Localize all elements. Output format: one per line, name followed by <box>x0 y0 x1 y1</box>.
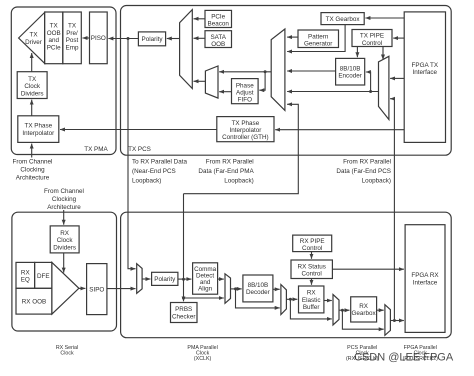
svg-text:Control: Control <box>362 40 382 47</box>
block PRBS Checker <box>171 303 198 323</box>
svg-text:To RX Parallel Data: To RX Parallel Data <box>132 158 187 165</box>
wire far-end PMA loopback (up from RX) <box>184 104 299 193</box>
block TX Gearbox <box>321 13 364 25</box>
block TX Phase Interpolator <box>18 116 59 143</box>
junction comma bypass branch <box>182 297 185 300</box>
svg-text:RX: RX <box>307 290 317 297</box>
svg-text:Control: Control <box>302 270 322 277</box>
svg-text:From Channel: From Channel <box>44 188 84 195</box>
svg-text:CSDN @LEE FPGA: CSDN @LEE FPGA <box>354 352 454 364</box>
svg-text:Clocking: Clocking <box>52 196 77 203</box>
wire FPGA-side mux output to TX PCS mux <box>287 91 378 93</box>
label From RX Parallel Data (Far-End PMA Loopback) <box>198 158 254 184</box>
svg-text:Architecture: Architecture <box>16 174 50 181</box>
wire branch into Phase Adjust FIFO <box>259 72 265 90</box>
svg-text:RX: RX <box>21 269 31 276</box>
wire FIFO-bypass mux to TX output mux <box>194 80 206 82</box>
mux TX PCS datapath <box>271 29 285 110</box>
wire FPGA TX Interface to TX PIPE Control <box>393 37 404 39</box>
svg-text:Pattern: Pattern <box>308 33 329 40</box>
block RX Gearbox <box>351 297 377 322</box>
wire buffer-bypass mux to RX Gearbox <box>339 309 350 311</box>
junction gearbox bypass branch <box>341 309 344 312</box>
svg-text:Emp: Emp <box>66 44 79 51</box>
svg-text:Driver: Driver <box>25 39 42 46</box>
wire TX PCS mux output to FIFO-bypass mux <box>219 71 271 73</box>
block FPGA TX Interface <box>404 12 445 143</box>
label RX Serial Clock <box>56 345 78 357</box>
svg-text:Loopback): Loopback) <box>132 177 161 184</box>
wire GTH controller to TX Phase Interpolator <box>60 129 217 131</box>
wire RX input mux to Polarity <box>142 278 150 280</box>
svg-text:Post: Post <box>66 37 79 44</box>
svg-text:Adjust: Adjust <box>236 90 254 97</box>
block RX EQ <box>16 262 35 288</box>
svg-text:TX: TX <box>50 23 59 30</box>
svg-text:Pre/: Pre/ <box>66 30 78 37</box>
block SATA OOB <box>205 31 232 48</box>
svg-text:EQ: EQ <box>21 277 30 284</box>
svg-text:Encoder: Encoder <box>338 73 361 80</box>
svg-text:RX: RX <box>359 303 369 310</box>
svg-text:SIPO: SIPO <box>89 286 104 293</box>
svg-text:Control: Control <box>302 245 322 252</box>
svg-text:Data (Far-End PMA: Data (Far-End PMA <box>198 168 254 175</box>
svg-text:Polarity: Polarity <box>154 276 176 283</box>
svg-text:Elastic: Elastic <box>302 297 321 304</box>
svg-text:Loopback): Loopback) <box>362 177 391 184</box>
svg-text:Controller (GTH): Controller (GTH) <box>222 134 269 141</box>
svg-text:Dividers: Dividers <box>21 90 44 97</box>
wire gearbox bypass <box>342 310 383 329</box>
svg-text:RX OOB: RX OOB <box>22 299 47 306</box>
label From RX Parallel Data (Far-End PCS Loopback) <box>336 158 391 184</box>
block RX PIPE Control <box>293 235 332 252</box>
svg-text:OOB: OOB <box>47 30 61 37</box>
wire SIPO to RX input mux <box>107 288 136 290</box>
label PCS Parallel Clock (RXUSRCLK) <box>346 345 379 362</box>
svg-text:Data (Far-End PCS: Data (Far-End PCS <box>336 168 391 175</box>
junction near-end PCS loopback tap <box>127 37 130 40</box>
block TX Pre/Post Emp <box>63 12 82 64</box>
region box TX PCS <box>121 6 452 156</box>
svg-text:RX Status: RX Status <box>298 263 326 270</box>
wire Polarity to PISO <box>108 38 138 40</box>
svg-text:Clock: Clock <box>57 237 74 244</box>
svg-text:Interpolator: Interpolator <box>22 130 54 137</box>
junction decoder bypass branch <box>234 287 237 290</box>
svg-text:Interface: Interface <box>413 279 438 286</box>
svg-text:RX PIPE: RX PIPE <box>300 238 325 245</box>
svg-text:Loopback): Loopback) <box>224 177 253 184</box>
wire channel clocking into TX Phase Interpolator <box>31 144 33 158</box>
svg-text:DFE: DFE <box>37 273 50 280</box>
wire near-end PCS loopback (down to RX) <box>128 39 136 269</box>
block 8B/10B Decoder <box>243 275 273 302</box>
amplifier TX Driver <box>19 13 45 64</box>
wire Polarity to Comma Detect <box>178 278 192 280</box>
block Comma Detect and Align <box>193 263 218 294</box>
svg-text:Generator: Generator <box>304 41 332 48</box>
wire Phase Adjust FIFO to FIFO-bypass mux <box>219 91 231 93</box>
wire channel clocking into RX Clock Dividers <box>63 210 65 225</box>
block FPGA RX Interface <box>405 225 445 333</box>
wire polarity tap down to PRBS Checker <box>183 194 185 302</box>
block PCIe Beacon <box>205 10 232 27</box>
wire RX Status Control to FPGA RX Interface <box>332 268 404 270</box>
svg-text:Decoder: Decoder <box>246 289 270 296</box>
label FPGA Parallel Clock (RXUSRCLK2) <box>403 345 439 362</box>
block SIPO <box>87 264 107 315</box>
junction elastic buffer bypass branch <box>289 298 292 301</box>
svg-text:SATA: SATA <box>210 34 226 41</box>
wire TX PIPE Control to 8B/10B Encoder <box>356 47 358 58</box>
svg-text:TX Gearbox: TX Gearbox <box>326 16 361 23</box>
svg-text:RX: RX <box>60 230 70 237</box>
region box RX Serial Clock <box>12 212 117 331</box>
svg-text:Interface: Interface <box>413 69 438 76</box>
svg-text:Phase: Phase <box>236 82 254 89</box>
block Pattern Generator <box>298 30 339 48</box>
svg-text:From RX Parallel: From RX Parallel <box>343 158 391 165</box>
mux comma detect bypass <box>225 274 231 304</box>
svg-text:FPGA RX: FPGA RX <box>411 272 439 279</box>
block RX Status Control <box>291 260 332 279</box>
wire Comma Detect to comma mux <box>218 278 224 280</box>
wire SATA OOB to mux <box>194 37 206 39</box>
wire decoder bypass <box>236 289 280 308</box>
wire 8B/10B Encoder to TX PCS mux <box>287 70 336 72</box>
svg-text:Polarity: Polarity <box>142 36 164 43</box>
svg-text:Checker: Checker <box>172 313 195 320</box>
label To RX Parallel Data (Near-End PCS Loopback) <box>132 158 187 184</box>
region box TX PMA <box>11 7 116 155</box>
block DFE <box>35 262 52 288</box>
block RX Clock Dividers <box>50 226 79 253</box>
svg-text:TX PMA: TX PMA <box>84 146 108 153</box>
svg-text:TX: TX <box>29 32 38 39</box>
label From Channel Clocking Architecture (TX) <box>13 158 53 181</box>
svg-text:TX: TX <box>28 76 37 83</box>
block TX Clock Dividers <box>17 72 47 99</box>
svg-text:8B/10B: 8B/10B <box>248 282 269 289</box>
block TX PIPE Control <box>352 30 392 47</box>
block PISO <box>90 12 108 64</box>
svg-text:Clock: Clock <box>60 350 74 356</box>
wire RX Clock Dividers to RX buffer <box>63 253 65 273</box>
svg-text:PRBS: PRBS <box>175 306 192 313</box>
junction encoder input branch <box>369 90 372 93</box>
svg-text:Align: Align <box>198 285 212 292</box>
svg-text:FPGA TX: FPGA TX <box>412 62 439 69</box>
wire RX buffer to SIPO <box>79 287 86 289</box>
mux decoder bypass <box>281 285 287 315</box>
wire RX PIPE Control to RX Status Control <box>311 252 313 259</box>
svg-text:Gearbox: Gearbox <box>352 310 377 317</box>
wire FPGA TX Interface to FPGA-side mux <box>390 77 404 79</box>
mux elastic buffer bypass <box>333 295 339 326</box>
label From Channel Clocking Architecture (RX) <box>44 188 84 211</box>
block RX OOB <box>16 288 52 314</box>
mux gearbox bypass <box>385 305 391 336</box>
mux TX output (PCIe/SATA select) <box>180 10 193 89</box>
block TX Phase Interpolator Controller (GTH) <box>217 117 274 142</box>
svg-text:Clocking: Clocking <box>20 166 45 173</box>
wire FPGA TX Interface to TX Gearbox <box>365 17 404 19</box>
svg-text:From RX Parallel: From RX Parallel <box>206 158 254 165</box>
wire TX Clock Dividers to TX Driver <box>31 53 33 72</box>
svg-text:PCIe: PCIe <box>211 13 225 20</box>
svg-text:Clock: Clock <box>24 83 41 90</box>
svg-text:(Near-End PCS: (Near-End PCS <box>132 168 176 175</box>
svg-text:Dividers: Dividers <box>53 244 76 251</box>
junction far-end PCS loopback tap <box>393 319 396 322</box>
region box RX parallel clocks <box>121 212 452 338</box>
wire branch into 8B/10B Encoder <box>366 72 371 92</box>
svg-text:PISO: PISO <box>91 35 106 42</box>
wire far-end PCS loopback (up from RX) <box>390 99 394 321</box>
wire elastic buffer bypass <box>290 299 331 319</box>
wire TX Phase Interpolator to TX Clock Dividers <box>31 100 33 116</box>
svg-text:8B/10B: 8B/10B <box>340 65 361 72</box>
amplifier RX input buffer <box>52 262 79 314</box>
junction far-end PMA loopback tap <box>182 278 185 281</box>
block 8B/10B Encoder <box>336 58 365 85</box>
svg-text:PCIe: PCIe <box>47 44 61 51</box>
svg-text:OOB: OOB <box>211 41 225 48</box>
svg-text:FIFO: FIFO <box>238 97 252 104</box>
wire RX Elastic Buffer to buffer-bypass mux <box>324 300 332 302</box>
wire mux to Polarity <box>167 38 180 40</box>
svg-text:(XCLK): (XCLK) <box>194 356 212 362</box>
block Polarity (RX) <box>152 272 178 285</box>
svg-text:TX PIPE: TX PIPE <box>360 33 384 40</box>
wire PCIe Beacon to mux <box>194 18 206 20</box>
wire PISO to TX Pre/Post Emp <box>83 37 90 39</box>
svg-text:TX PCS: TX PCS <box>128 146 151 153</box>
block Phase Adjust FIFO <box>232 79 259 104</box>
junction FIFO input branch <box>264 70 267 73</box>
wire 8B/10B Decoder to decoder-bypass mux <box>273 288 280 290</box>
mux TX FPGA-side (far-end PCS loopback select) <box>379 56 389 119</box>
svg-text:Buffer: Buffer <box>303 304 320 311</box>
wire decoder-bypass mux to RX Elastic Buffer <box>286 298 297 300</box>
wire Pattern Generator to TX PCS mux <box>287 36 298 38</box>
block RX Elastic Buffer <box>299 286 324 313</box>
wire TX Gearbox output to TX PCS mux <box>287 25 345 52</box>
wire RX Gearbox to gearbox-bypass mux <box>377 309 384 311</box>
svg-text:and: and <box>48 37 59 44</box>
mux TX FIFO bypass <box>205 66 218 98</box>
svg-text:Architecture: Architecture <box>47 204 81 211</box>
block TX OOB and PCIe <box>45 12 63 64</box>
mux RX input (near-end PCS loopback select) <box>137 264 142 294</box>
svg-text:TX: TX <box>68 23 77 30</box>
svg-text:From Channel: From Channel <box>13 158 53 165</box>
svg-text:TX Phase: TX Phase <box>24 123 52 130</box>
wire TX PIPE Control to FPGA-side mux <box>382 47 384 60</box>
wire FPGA TX Interface to GTH controller <box>275 129 404 131</box>
svg-text:Beacon: Beacon <box>208 20 230 27</box>
wire gearbox-bypass mux to FPGA RX Interface <box>390 320 404 322</box>
wire comma mux to 8B/10B Decoder <box>231 288 242 290</box>
block Polarity (TX) <box>138 32 165 46</box>
label PMA Parallel Clock (XCLK) <box>187 345 217 362</box>
wire RX Status Control to RX Elastic Buffer <box>311 279 313 285</box>
wire comma detect bypass <box>184 297 224 299</box>
